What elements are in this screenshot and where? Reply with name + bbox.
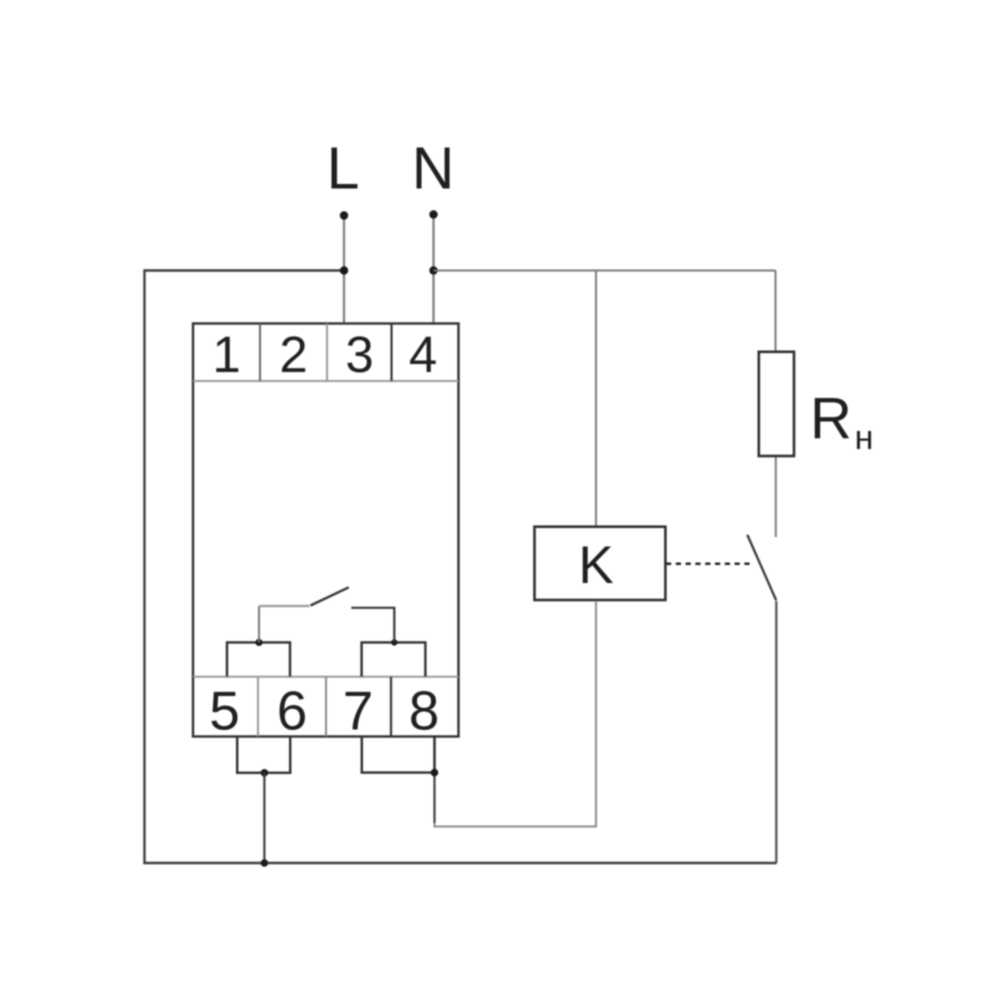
svg-text:4: 4 [409, 326, 437, 383]
svg-text:K: K [578, 536, 613, 595]
svg-text:7: 7 [343, 680, 374, 742]
svg-text:3: 3 [345, 326, 373, 383]
svg-text:8: 8 [409, 680, 440, 742]
svg-text:N: N [412, 136, 455, 202]
svg-text:6: 6 [277, 680, 308, 742]
svg-text:н: н [855, 419, 874, 457]
svg-text:1: 1 [212, 326, 240, 383]
svg-text:2: 2 [279, 326, 307, 383]
svg-text:5: 5 [209, 680, 240, 742]
svg-text:R: R [810, 386, 852, 451]
svg-text:L: L [327, 136, 360, 202]
